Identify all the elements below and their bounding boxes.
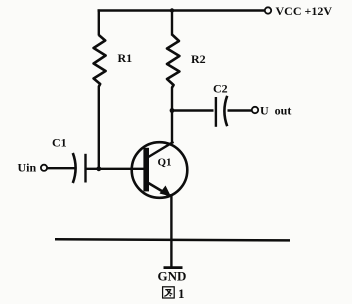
wire ground rail <box>55 239 290 240</box>
svg-text:GND: GND <box>158 269 187 284</box>
resistor R2 <box>167 35 179 88</box>
svg-text:R1: R1 <box>118 51 133 65</box>
wire collector vertical <box>171 87 173 144</box>
transistor Q1 <box>132 142 188 198</box>
wire top rail <box>98 9 265 11</box>
svg-text:1: 1 <box>178 286 185 301</box>
svg-text:C2: C2 <box>213 82 228 96</box>
capacitor C2 <box>216 96 227 127</box>
node base junction dot <box>96 166 101 171</box>
svg-text:U out: U out <box>260 104 291 118</box>
terminal VCC <box>265 7 271 13</box>
capacitor C1 <box>73 153 86 183</box>
svg-text:VCC +12V: VCC +12V <box>276 4 333 18</box>
svg-text:Uin: Uin <box>18 161 37 175</box>
wire emitter vertical <box>170 194 172 267</box>
ground <box>164 266 183 269</box>
node VCC junction dot <box>170 8 174 12</box>
terminal Uin <box>41 165 47 171</box>
terminal U out <box>252 107 258 113</box>
svg-text:R2: R2 <box>191 52 206 66</box>
wire C2 right <box>228 109 252 111</box>
resistor R1 <box>94 35 106 87</box>
node C2 junction dot <box>170 108 175 113</box>
wire input <box>47 167 75 169</box>
label figure caption 图 1 <box>163 286 185 301</box>
wire base <box>86 168 145 170</box>
svg-text:C1: C1 <box>52 136 67 150</box>
wire C2 left <box>172 109 214 111</box>
wire left branch lower <box>98 86 100 170</box>
svg-text:Q1: Q1 <box>158 157 172 169</box>
wire mid branch upper <box>171 9 173 35</box>
wire left branch upper <box>98 9 100 35</box>
